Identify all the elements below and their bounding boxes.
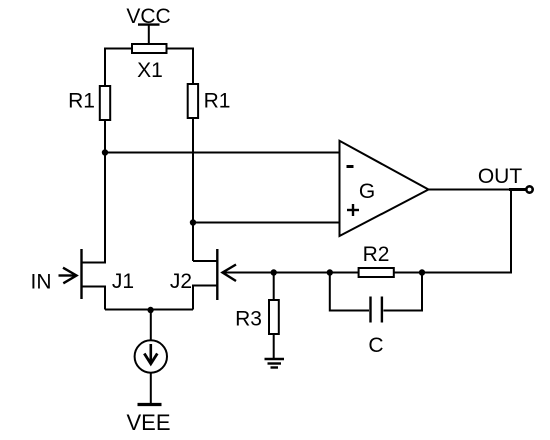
wire current source to VEE <box>150 373 152 404</box>
capacitor left wire <box>330 273 369 311</box>
svg-text:C: C <box>368 334 383 357</box>
op-amp minus input label <box>347 165 354 168</box>
wire op-amp output <box>428 189 527 191</box>
wire to op-amp non-inverting input <box>193 222 340 224</box>
svg-text:R2: R2 <box>363 243 390 266</box>
current source arrow <box>150 344 153 362</box>
svg-text:G: G <box>359 180 375 203</box>
svg-text:R1: R1 <box>68 90 95 113</box>
wire to op-amp inverting input <box>105 152 340 154</box>
wire X1 to left branch <box>105 49 132 87</box>
wire R3 top <box>273 273 275 301</box>
svg-text:R3: R3 <box>235 308 262 331</box>
op-amp plus input label <box>347 209 359 211</box>
OUT terminal <box>526 186 532 192</box>
J1 drain lead <box>82 262 106 264</box>
op-amp U1 <box>340 141 429 236</box>
node left junction <box>102 149 108 155</box>
node C right junction <box>419 269 425 275</box>
J1 source lead <box>82 287 106 310</box>
wire right branch vertical <box>192 118 194 261</box>
svg-text:IN: IN <box>31 271 52 294</box>
wire to current source <box>150 310 152 341</box>
svg-text:X1: X1 <box>137 59 163 82</box>
resistor R2 <box>359 268 394 277</box>
ground <box>265 359 285 368</box>
wire left branch vertical <box>104 120 106 264</box>
svg-text:R1: R1 <box>204 90 231 113</box>
resistor R1 left <box>100 86 110 120</box>
svg-text:VEE: VEE <box>126 410 170 435</box>
resistor X1 <box>132 44 167 53</box>
node C left junction <box>327 269 333 275</box>
J2 drain lead <box>193 260 217 262</box>
capacitor C plates <box>369 297 371 323</box>
wire VCC to X1 <box>148 25 150 44</box>
J2 gate arrowhead <box>223 265 237 282</box>
node tail junction <box>147 307 153 313</box>
bottom rail wire <box>105 309 193 311</box>
wire feedback from output <box>224 190 511 273</box>
wire R3 to ground <box>273 334 275 358</box>
svg-text:J2: J2 <box>170 270 192 293</box>
svg-text:OUT: OUT <box>478 165 523 188</box>
wire output stub <box>509 188 526 191</box>
resistor R1 right <box>188 84 198 118</box>
J2 source lead <box>193 286 217 310</box>
J1 gate arrowhead <box>63 268 77 284</box>
node R3 junction <box>271 269 277 275</box>
transistor J2 channel bar <box>216 249 218 300</box>
VCC terminal bar <box>138 23 160 25</box>
J1 gate wire <box>59 274 75 276</box>
svg-text:J1: J1 <box>112 270 134 293</box>
capacitor right wire <box>383 273 422 311</box>
resistor R3 <box>269 300 279 334</box>
node right junction <box>190 219 196 225</box>
transistor J1 channel bar <box>80 249 82 299</box>
VEE terminal bar <box>138 403 162 406</box>
current source I1 <box>135 340 167 372</box>
wire X1 to right branch <box>167 49 194 85</box>
